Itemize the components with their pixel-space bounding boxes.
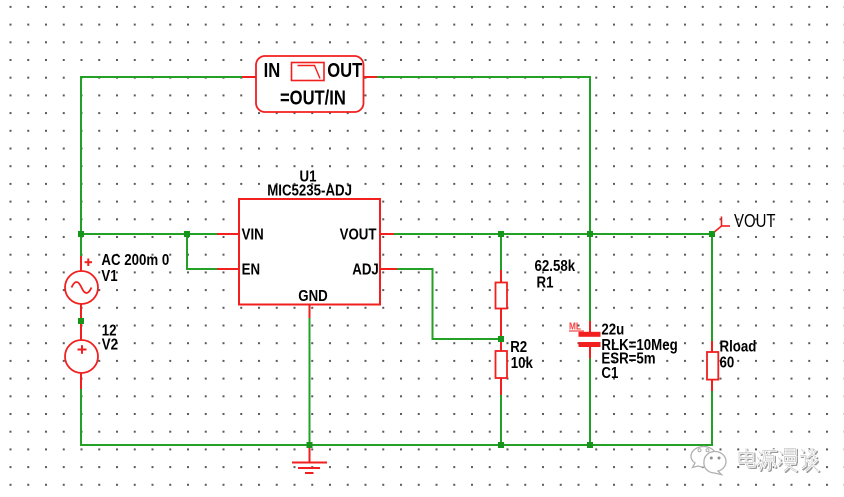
watermark logo bubbles xyxy=(691,447,726,475)
junction at R2 bottom xyxy=(498,442,504,448)
wire: Rload bottom to ground rail xyxy=(711,391,713,446)
svg-text:IN: IN xyxy=(264,59,281,82)
wire: R2 bottom to ground rail xyxy=(500,395,502,445)
watermark text dian-yuan-man-tan (drawn strokes, embossed outline style) xyxy=(739,449,819,472)
junction at ground symbol xyxy=(307,442,313,448)
wire: V2 bottom to ground rail xyxy=(80,389,82,446)
svg-text:=OUT/IN: =OUT/IN xyxy=(280,86,346,109)
voltage source V1 (AC) xyxy=(65,252,169,318)
wire: VOUT node down to C1 xyxy=(589,234,591,321)
voltage source V2 (DC 12) xyxy=(65,322,118,389)
resistor R1 62.58k xyxy=(496,258,576,338)
resistor Rload 60 xyxy=(707,338,756,391)
wire: EN branch xyxy=(187,234,217,269)
svg-text:VOUT: VOUT xyxy=(340,226,377,243)
junction at R1/R2 feedback xyxy=(498,336,504,342)
junction at VOUT/Rload xyxy=(709,231,715,237)
transfer-function probe (gain meter) xyxy=(242,56,377,112)
svg-text:VIN: VIN xyxy=(242,226,264,243)
wire: VIN horizontal xyxy=(81,233,217,235)
svg-text:ML: ML xyxy=(569,321,581,332)
svg-text:MIC5235-ADJ: MIC5235-ADJ xyxy=(267,182,352,199)
svg-text:R2: R2 xyxy=(510,339,527,356)
wire: C1 bottom to ground rail xyxy=(589,359,591,446)
svg-text:OUT: OUT xyxy=(327,59,363,82)
wire: probe OUT to VOUT node xyxy=(377,77,590,233)
svg-text:EN: EN xyxy=(242,262,260,279)
op-amp regulator U1 MIC5235-ADJ xyxy=(217,168,397,318)
svg-text:Rload: Rload xyxy=(720,338,757,355)
svg-text:62.58k: 62.58k xyxy=(535,258,576,275)
wire: ADJ to feedback node xyxy=(397,269,499,339)
wire: U1 GND pin to ground rail xyxy=(309,317,311,443)
wire: VOUT horizontal xyxy=(394,233,712,235)
wire: VOUT node down to Rload xyxy=(711,234,713,341)
ground xyxy=(292,447,327,473)
svg-text:60: 60 xyxy=(720,354,735,371)
resistor R2 10k xyxy=(496,339,534,395)
junction at R1 top xyxy=(498,231,504,237)
svg-text:VOUT: VOUT xyxy=(734,211,775,232)
junction between V1 and V2 xyxy=(78,318,84,324)
node VOUT label xyxy=(713,211,776,234)
svg-text:AC 200m 0: AC 200m 0 xyxy=(101,252,169,269)
svg-text:V1: V1 xyxy=(101,268,117,285)
svg-text:V2: V2 xyxy=(102,336,118,353)
junction at EN branch xyxy=(184,231,190,237)
svg-text:C1: C1 xyxy=(601,365,618,382)
junction at V1/VIN xyxy=(78,231,84,237)
svg-text:GND: GND xyxy=(298,288,327,305)
wire: left vertical top (node IN net) xyxy=(81,77,243,256)
svg-text:10k: 10k xyxy=(511,355,534,372)
wire: VOUT node down to R1 xyxy=(500,234,502,270)
svg-text:R1: R1 xyxy=(537,274,554,291)
junction at C1 top xyxy=(587,231,593,237)
svg-text:ADJ: ADJ xyxy=(352,262,379,279)
junction at C1 bottom xyxy=(587,442,593,448)
wire: bottom ground rail xyxy=(81,444,712,446)
capacitor C1 22u xyxy=(569,321,678,383)
